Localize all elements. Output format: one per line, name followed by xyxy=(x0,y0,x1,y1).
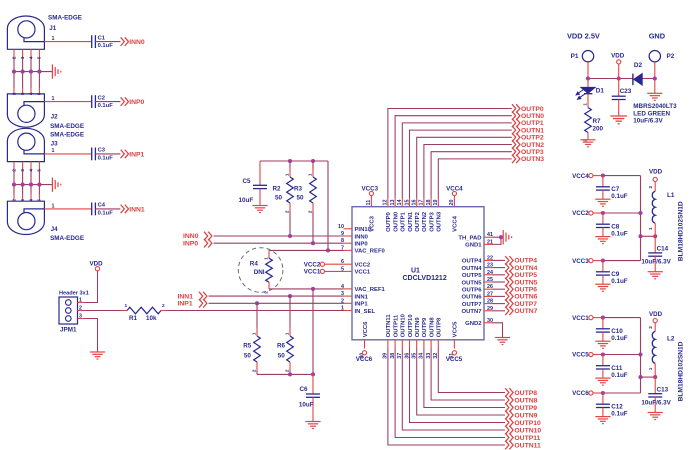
svg-text:R7: R7 xyxy=(593,118,602,125)
power flag VCC5 at pin 31 xyxy=(452,351,456,355)
svg-text:50: 50 xyxy=(297,195,305,202)
capacitor C5 xyxy=(259,161,261,185)
junction dot bus middle row xyxy=(638,352,642,356)
ground right-facing at TH_PAD xyxy=(503,230,511,244)
U1 pin 12 OUTP0 (top) xyxy=(387,198,389,207)
net flag INN1 xyxy=(121,205,129,214)
svg-text:R1: R1 xyxy=(129,315,138,322)
U1 pin 22 OUTP4 (right) xyxy=(484,259,493,261)
U1 pin 34 OUTP9 (bottom) xyxy=(423,340,425,349)
junction dot R2 top xyxy=(288,159,292,163)
wire INN0 to pin 9 xyxy=(214,235,344,237)
svg-text:P1: P1 xyxy=(571,53,579,60)
svg-text:OUTP0: OUTP0 xyxy=(521,106,544,113)
U1 pin 16 OUTP2 (top) xyxy=(416,198,418,207)
svg-text:OUTP10: OUTP10 xyxy=(408,314,414,338)
svg-text:DNI: DNI xyxy=(254,269,265,276)
svg-text:VCC1: VCC1 xyxy=(572,315,589,322)
U1 pin 5 VCC1 (left) xyxy=(344,270,353,272)
net flag OUTN9 xyxy=(505,411,513,420)
U1 pin 29 OUTN7 (right) xyxy=(484,310,493,312)
U1 pin 2 INP1 (left) xyxy=(344,302,353,304)
svg-text:2: 2 xyxy=(307,210,312,213)
svg-text:D2: D2 xyxy=(634,62,643,69)
wire pin 4 row (VAC_REF1) from R4 to chip xyxy=(269,288,344,290)
wire U1 pin 25 to OUTN5 flag xyxy=(493,281,506,283)
svg-text:OUTP5: OUTP5 xyxy=(462,273,482,279)
svg-text:C4: C4 xyxy=(98,203,106,209)
svg-text:SMA-EDGE: SMA-EDGE xyxy=(50,235,84,242)
U1 pin 23 OUTN4 (right) xyxy=(484,267,493,269)
svg-text:J1: J1 xyxy=(49,25,57,32)
svg-text:D1: D1 xyxy=(596,87,605,94)
svg-text:2: 2 xyxy=(251,369,256,372)
ground below P2 xyxy=(647,93,662,100)
svg-text:GND1: GND1 xyxy=(465,243,482,249)
svg-text:1: 1 xyxy=(263,257,268,260)
ground below C7 xyxy=(595,199,610,206)
junction dots J1-J2 row xyxy=(12,70,16,74)
inductor L2 BLM18HD102SN1D xyxy=(654,323,656,332)
net flag OUTP2 xyxy=(512,133,520,142)
net flag OUTN4 xyxy=(505,263,513,272)
svg-text:OUTN10: OUTN10 xyxy=(401,313,407,337)
U1 pin 30 GND2 (right) xyxy=(484,322,493,324)
capacitor C11 0.1uF xyxy=(602,355,604,366)
capacitor C9 0.1uF xyxy=(602,261,604,272)
U1 pin 41 TH_PAD (right) xyxy=(484,236,493,238)
svg-text:OUTN6: OUTN6 xyxy=(462,295,483,301)
svg-text:C11: C11 xyxy=(611,365,623,372)
junction dot VDD rail xyxy=(617,76,621,80)
wire U1 pin 36 to OUTP10 flag xyxy=(410,349,506,423)
junction dot C6 node xyxy=(311,372,315,376)
net flag OUTP3 xyxy=(512,147,520,156)
svg-text:2: 2 xyxy=(648,326,653,329)
junction dot at pin7 row xyxy=(326,248,330,252)
svg-text:18: 18 xyxy=(426,200,432,206)
wire U1 pin 33 to OUTN8 flag xyxy=(431,349,505,401)
junction dot bus node row xyxy=(638,234,642,238)
net flag OUTP4 xyxy=(505,256,513,265)
svg-text:VDD: VDD xyxy=(611,52,625,59)
net flag OUTP10 xyxy=(505,418,513,427)
svg-text:J3: J3 xyxy=(51,140,59,147)
svg-text:OUTN1: OUTN1 xyxy=(408,211,414,232)
net flag OUTN2 xyxy=(512,140,520,149)
svg-text:R5: R5 xyxy=(243,343,252,350)
svg-text:10: 10 xyxy=(338,224,344,230)
svg-text:VCC6: VCC6 xyxy=(356,356,373,363)
junction dot VAC_REF1 to termination node xyxy=(311,287,315,291)
svg-text:2: 2 xyxy=(11,56,16,59)
svg-text:SMA-EDGE: SMA-EDGE xyxy=(50,132,84,139)
junction dot TH_PAD/GND1 xyxy=(499,235,503,239)
U1 pin 14 OUTP1 (top) xyxy=(401,198,403,207)
svg-text:OUTP5: OUTP5 xyxy=(514,272,537,279)
junction dot bus node row xyxy=(638,375,642,379)
svg-text:OUTN5: OUTN5 xyxy=(514,279,537,286)
ground below C5 xyxy=(252,206,267,213)
svg-text:OUTP4: OUTP4 xyxy=(462,259,482,265)
svg-text:50: 50 xyxy=(244,353,252,360)
capacitor C4 xyxy=(92,203,96,216)
U1 pin 38 OUTP11 (bottom) xyxy=(394,340,396,349)
ground below GND2 xyxy=(495,338,510,345)
svg-text:200: 200 xyxy=(593,126,604,133)
svg-text:OUTN8: OUTN8 xyxy=(514,397,537,404)
wire U1 pin 39 to OUTN11 flag xyxy=(388,349,505,446)
svg-text:VCC6: VCC6 xyxy=(363,321,369,337)
U1 pin 37 OUTN10 (bottom) xyxy=(401,340,403,349)
svg-text:26: 26 xyxy=(487,284,493,290)
svg-text:5: 5 xyxy=(37,56,42,59)
svg-text:OUTN7: OUTN7 xyxy=(514,308,537,315)
svg-text:OUTN0: OUTN0 xyxy=(521,113,544,120)
wire header pin1 to VDD xyxy=(78,302,85,304)
svg-text:28: 28 xyxy=(487,299,493,305)
svg-text:C5: C5 xyxy=(243,178,252,185)
svg-text:R6: R6 xyxy=(277,343,286,350)
svg-text:INN0: INN0 xyxy=(355,234,369,240)
svg-text:10uF: 10uF xyxy=(299,402,314,409)
U1 pin 21 GND1 (right) xyxy=(484,243,493,245)
svg-text:R3: R3 xyxy=(294,186,303,193)
wire U1 pin 24 to OUTP5 flag xyxy=(493,274,506,276)
svg-text:VCC5: VCC5 xyxy=(572,352,589,359)
junction dot C8 top xyxy=(601,211,605,215)
wire J4 pin1 to C4 xyxy=(44,208,91,210)
power flag VCC6 at pin 40 xyxy=(362,351,366,355)
svg-text:11: 11 xyxy=(366,200,372,206)
wire U1 pin 22 to OUTP4 flag xyxy=(493,259,506,261)
svg-text:10uF/6.3V: 10uF/6.3V xyxy=(641,259,671,266)
net flag OUTN8 xyxy=(505,396,513,405)
svg-text:VCC6: VCC6 xyxy=(572,390,589,397)
bus vertical L2 block xyxy=(640,318,642,393)
svg-text:VCC2: VCC2 xyxy=(304,261,321,268)
svg-text:1: 1 xyxy=(582,103,587,106)
svg-text:13: 13 xyxy=(390,200,396,206)
svg-text:INN0: INN0 xyxy=(129,39,145,46)
svg-text:OUTN3: OUTN3 xyxy=(521,156,544,163)
svg-text:OUTN2: OUTN2 xyxy=(521,142,544,149)
resistor R5 50 xyxy=(256,303,258,327)
svg-text:R4: R4 xyxy=(250,261,259,268)
capacitor C6 xyxy=(312,374,314,394)
junction dot R6 top on INN1 xyxy=(288,294,292,298)
wire node row to L1 xyxy=(641,235,656,237)
connector J1 SMA-EDGE body xyxy=(7,16,44,49)
junction dot R3 top xyxy=(311,159,315,163)
wire VCC5 row to bus xyxy=(593,354,603,356)
ground below C10 xyxy=(595,341,610,348)
svg-text:0.1uF: 0.1uF xyxy=(611,193,628,200)
svg-text:1: 1 xyxy=(52,36,55,42)
U1 pin 24 OUTP5 (right) xyxy=(484,274,493,276)
wire INP1 to pin 2 xyxy=(209,302,344,304)
capacitor C7 0.1uF xyxy=(602,176,604,187)
capacitor C10 0.1uF xyxy=(602,318,604,329)
banana jack P2 xyxy=(649,51,660,62)
svg-text:24: 24 xyxy=(487,270,493,276)
svg-text:INP0: INP0 xyxy=(129,99,144,106)
svg-text:30: 30 xyxy=(487,318,493,324)
svg-text:0.1uF: 0.1uF xyxy=(611,335,628,342)
wire R5/R6 bottom termination node xyxy=(257,373,313,375)
U1 pin 19 OUTN3 (top) xyxy=(437,198,439,207)
diode D2 MBRS2040LT3 xyxy=(634,74,642,86)
junction dot P2 rail xyxy=(653,76,657,80)
ground below C11 xyxy=(595,378,610,385)
U1 pin 40 VCC6 (bottom) xyxy=(364,340,366,349)
svg-text:10uF: 10uF xyxy=(239,197,254,204)
wire VAC_REF0 vertical down to pin 7 row xyxy=(327,161,329,250)
junction dot R5 top on INP1 xyxy=(255,301,259,305)
U1 pin 13 OUTN0 (top) xyxy=(394,198,396,207)
net flag OUTP1 xyxy=(512,119,520,128)
net flag OUTP11 xyxy=(505,433,513,442)
svg-text:VCC4: VCC4 xyxy=(572,173,589,180)
resistor R4 DNI (dashed circle) xyxy=(238,248,283,293)
junction dot C10 top xyxy=(601,316,605,320)
net flag OUTN11 xyxy=(505,441,513,450)
wire VCC4 row to bus xyxy=(593,175,603,177)
junction dot C11 top xyxy=(601,352,605,356)
inductor L1 BLM18HD102SN1D xyxy=(654,182,656,192)
svg-text:10uF/6.3V: 10uF/6.3V xyxy=(633,117,663,124)
svg-text:4: 4 xyxy=(28,56,33,59)
junction dot L2 pin 1 xyxy=(653,375,657,379)
svg-text:OUTP4: OUTP4 xyxy=(514,258,537,265)
wire P2 down to ground xyxy=(654,62,656,93)
wire C1 to INN0 flag xyxy=(95,41,120,43)
svg-text:OUTN11: OUTN11 xyxy=(514,442,541,449)
net flag OUTN1 xyxy=(512,126,520,135)
wire GND2 to ground xyxy=(493,323,503,338)
U1 pin 7 VAC_REF0 (left) xyxy=(344,249,353,251)
svg-text:10k: 10k xyxy=(146,315,157,322)
svg-text:C23: C23 xyxy=(620,88,632,95)
svg-text:0.1uF: 0.1uF xyxy=(98,155,114,161)
svg-text:OUTN9: OUTN9 xyxy=(514,412,537,419)
svg-text:OUTN11: OUTN11 xyxy=(386,314,392,338)
connector J4 SMA-EDGE body (flipped) xyxy=(7,201,44,234)
net flag OUTN0 xyxy=(512,111,520,120)
junction dot C9 top xyxy=(601,259,605,263)
svg-text:0.1uF: 0.1uF xyxy=(611,278,628,285)
resistor R6 50 xyxy=(289,296,291,327)
svg-text:C10: C10 xyxy=(611,328,623,335)
svg-text:OUTP9: OUTP9 xyxy=(422,317,428,337)
ground below C8 xyxy=(595,237,610,244)
svg-text:OUTN1: OUTN1 xyxy=(521,127,544,134)
svg-text:1: 1 xyxy=(52,148,55,154)
wire TH_PAD GND1 to ground xyxy=(493,236,502,238)
svg-text:C7: C7 xyxy=(611,186,620,193)
svg-text:OUTN9: OUTN9 xyxy=(415,317,421,338)
svg-text:OUTN2: OUTN2 xyxy=(422,211,428,232)
wire U1 pin 35 to OUTN9 flag xyxy=(417,349,505,416)
U1 pin 6 VCC2 (left) xyxy=(344,263,353,265)
capacitor C1 xyxy=(92,35,96,48)
svg-text:L1: L1 xyxy=(667,192,675,199)
U1 pin 31 VCC5 (bottom) xyxy=(453,340,455,349)
header JPM1 3x1 body xyxy=(59,297,78,324)
wire C2 to INP0 flag xyxy=(95,101,120,103)
U1 pin 8 INP0 (left) xyxy=(344,242,353,244)
svg-text:VAC_REF0: VAC_REF0 xyxy=(355,249,386,255)
ground below C12 xyxy=(595,417,610,424)
svg-text:CDCLVD1212: CDCLVD1212 xyxy=(403,275,447,282)
wire J1 pin1 to C1 xyxy=(44,41,91,43)
svg-text:Header 3x1: Header 3x1 xyxy=(59,291,89,297)
svg-text:IN_SEL: IN_SEL xyxy=(355,309,376,315)
svg-text:INN0: INN0 xyxy=(183,233,199,240)
capacitor C3 xyxy=(92,148,96,161)
svg-text:OUTN7: OUTN7 xyxy=(462,309,483,315)
svg-text:1: 1 xyxy=(284,173,289,176)
svg-text:INN1: INN1 xyxy=(355,294,369,300)
svg-text:1: 1 xyxy=(251,332,256,335)
svg-text:C1: C1 xyxy=(98,35,106,41)
svg-text:L2: L2 xyxy=(667,336,675,343)
U1 pin 36 OUTP10 (bottom) xyxy=(409,340,411,349)
net flag INP1 xyxy=(121,150,129,159)
svg-text:OUTN5: OUTN5 xyxy=(462,280,483,286)
net flag OUTP6 xyxy=(505,285,513,294)
svg-text:OUTP7: OUTP7 xyxy=(514,301,537,308)
svg-text:50: 50 xyxy=(278,353,286,360)
wire C4 to INN1 flag xyxy=(95,208,120,210)
banana jack P1 xyxy=(582,51,593,62)
wire pin 7 row (VAC_REF0) from R4 to chip xyxy=(269,249,344,251)
wire U1 pin 28 to OUTP7 flag xyxy=(493,303,506,305)
svg-text:VCC2: VCC2 xyxy=(572,210,589,217)
wire C5/R2/R3 common node (VAC_REF0) xyxy=(260,160,328,162)
capacitor C8 0.1uF xyxy=(602,213,604,224)
wire U1 pin 38 to OUTP11 flag xyxy=(395,349,505,438)
wire U1 pin 15 to OUTN1 flag xyxy=(410,130,512,198)
J3-J4 pin wires 2,3,4,5 xyxy=(13,162,15,169)
wire header pin2 to R1 xyxy=(78,310,85,312)
svg-text:INP1: INP1 xyxy=(129,151,144,158)
wire U1 pin 14 to OUTP1 flag xyxy=(402,123,512,198)
resistor R1 10k xyxy=(127,307,161,314)
net flag OUTN5 xyxy=(505,278,513,287)
resistor R3 50 xyxy=(312,161,314,169)
wire P1 down to rail xyxy=(587,62,589,79)
connector J2 SMA-EDGE body (flipped) xyxy=(7,94,44,127)
svg-text:15: 15 xyxy=(404,200,410,206)
wire J3 pin1 to C3 xyxy=(44,153,91,155)
ground below R7 xyxy=(580,140,595,147)
U1 pin 33 OUTN8 (bottom) xyxy=(430,340,432,349)
J1-J2 pin wires 2,3,4,5 xyxy=(13,49,15,56)
U1 pin 15 OUTN1 (top) xyxy=(409,198,411,207)
U1 pin 4 VAC_REF1 (left) xyxy=(344,288,353,290)
svg-text:OUTP8: OUTP8 xyxy=(437,317,443,337)
svg-text:2: 2 xyxy=(648,185,653,188)
wire U1 pin 23 to OUTN4 flag xyxy=(493,267,506,269)
svg-text:16: 16 xyxy=(412,200,418,206)
svg-text:0.1uF: 0.1uF xyxy=(98,210,114,216)
capacitor C2 xyxy=(92,95,96,108)
wire U1 pin 16 to OUTP2 flag xyxy=(417,137,512,198)
svg-text:0.1uF: 0.1uF xyxy=(98,103,114,109)
svg-text:OUTN3: OUTN3 xyxy=(437,211,443,232)
wire U1 pin 12 to OUTP0 flag xyxy=(388,109,512,199)
junction dot P1 rail xyxy=(586,76,590,80)
svg-text:INP1: INP1 xyxy=(355,302,369,308)
wire junction row J3-J4 to ground xyxy=(14,184,52,186)
svg-text:VCC2: VCC2 xyxy=(355,263,371,269)
wire U1 pin 17 to OUTN2 flag xyxy=(424,145,512,199)
resistor R7 200 xyxy=(587,94,589,108)
svg-text:2: 2 xyxy=(263,291,268,294)
svg-text:R2: R2 xyxy=(273,186,282,193)
ground below C14 xyxy=(648,272,663,279)
resistor R2 50 xyxy=(289,161,291,169)
svg-text:10uF/6.3V: 10uF/6.3V xyxy=(641,399,671,406)
svg-text:BLM18HD102SN1D: BLM18HD102SN1D xyxy=(678,201,685,261)
svg-text:25: 25 xyxy=(487,277,493,283)
svg-text:OUTN8: OUTN8 xyxy=(429,317,435,338)
wire INN1 to pin 3 xyxy=(209,295,344,297)
wire VCC1 row to bus xyxy=(593,317,603,319)
svg-text:2: 2 xyxy=(284,210,289,213)
ground below header pin3 xyxy=(90,352,105,359)
svg-text:VCC5: VCC5 xyxy=(453,321,459,337)
power rail wire P1 to D2 xyxy=(588,78,633,80)
svg-text:5: 5 xyxy=(37,169,42,172)
net flag OUTN10 xyxy=(505,426,513,435)
svg-text:OUTP1: OUTP1 xyxy=(521,120,544,127)
svg-text:VCC1: VCC1 xyxy=(355,270,371,276)
svg-text:OUTP6: OUTP6 xyxy=(462,288,482,294)
svg-text:OUTP9: OUTP9 xyxy=(514,405,537,412)
svg-text:3: 3 xyxy=(20,56,25,59)
svg-text:OUTP6: OUTP6 xyxy=(514,287,537,294)
wire VCC3 row to bus xyxy=(593,260,603,262)
IC U1 CDCLVD1212 body xyxy=(352,207,484,340)
svg-text:OUTP10: OUTP10 xyxy=(514,420,541,427)
svg-text:23: 23 xyxy=(487,263,493,269)
svg-text:VDD 2.5V: VDD 2.5V xyxy=(567,32,600,41)
junction dot bus middle row xyxy=(638,211,642,215)
svg-text:1: 1 xyxy=(648,367,653,370)
wire U1 pin 34 to OUTP9 flag xyxy=(424,349,505,408)
U1 pin 18 OUTP3 (top) xyxy=(430,198,432,207)
junction dot R2 bottom on INN0 xyxy=(288,234,292,238)
svg-text:GND2: GND2 xyxy=(465,321,482,327)
svg-text:4: 4 xyxy=(28,169,33,172)
svg-text:JPM1: JPM1 xyxy=(60,327,77,334)
wire VCC6 row to bus xyxy=(593,392,603,394)
svg-text:1: 1 xyxy=(648,227,653,230)
svg-text:LED GREEN: LED GREEN xyxy=(633,110,670,117)
svg-text:P2: P2 xyxy=(667,53,675,60)
svg-text:INN1: INN1 xyxy=(178,293,194,300)
svg-text:INP0: INP0 xyxy=(355,242,369,248)
bus vertical L1 block xyxy=(640,176,642,261)
junction dots J3-J4 row xyxy=(12,183,16,187)
svg-text:0.1uF: 0.1uF xyxy=(611,231,628,238)
wire header pin3 to ground xyxy=(78,318,85,320)
wire junction row J1-J2 to ground xyxy=(14,71,52,73)
svg-text:1: 1 xyxy=(125,303,128,309)
LED D1 xyxy=(587,79,589,88)
